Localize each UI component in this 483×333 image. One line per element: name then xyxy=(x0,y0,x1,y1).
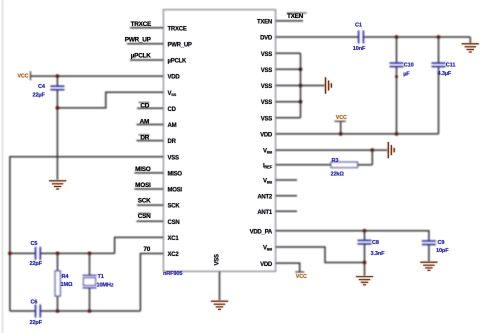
net label TXEN xyxy=(287,12,307,14)
svg-text:C9: C9 xyxy=(438,240,445,246)
svg-text:VDD: VDD xyxy=(260,133,273,139)
svg-text:VCC: VCC xyxy=(336,115,347,121)
capacitor C10 xyxy=(390,63,404,67)
svg-text:4.3µF: 4.3µF xyxy=(438,71,452,77)
svg-text:CD: CD xyxy=(140,102,149,109)
ground top right (DVDD rail) xyxy=(462,44,479,52)
svg-text:TRXCE: TRXCE xyxy=(131,21,152,28)
svg-text:3.3nF: 3.3nF xyxy=(371,251,386,257)
svg-text:VDD_PA: VDD_PA xyxy=(250,229,273,235)
ground below C4 xyxy=(49,181,66,189)
junction at C4 top xyxy=(56,74,60,78)
svg-text:PWR_UP: PWR_UP xyxy=(168,42,192,48)
capacitor C1 xyxy=(359,31,364,44)
ground (rotated) at VBB xyxy=(388,142,394,158)
power port VCC (left) xyxy=(30,71,32,80)
resistor R4 xyxy=(55,271,60,296)
svg-text:VSS: VSS xyxy=(215,254,221,266)
svg-text:70: 70 xyxy=(143,246,150,253)
wire: VSS stubs xyxy=(276,52,301,54)
power port VCC (bottom) xyxy=(295,271,304,273)
svg-text:R3: R3 xyxy=(332,158,339,164)
net label CSN xyxy=(138,212,151,214)
wire: CD pin stub xyxy=(137,107,164,109)
ground below C8 xyxy=(356,277,373,285)
svg-text:SCK: SCK xyxy=(168,204,181,210)
svg-text:DR: DR xyxy=(168,139,177,145)
junction C11 top xyxy=(437,35,441,39)
svg-text:C11: C11 xyxy=(446,62,456,68)
ground top right stub xyxy=(469,37,471,44)
ground (rotated) at VSS bus xyxy=(326,77,332,93)
wire: R3 branch vertical xyxy=(371,150,373,165)
ground below C9 xyxy=(420,262,437,270)
wire: VBB stub xyxy=(276,179,298,181)
svg-text:22µF: 22µF xyxy=(33,93,46,99)
svg-text:CSN: CSN xyxy=(138,213,151,220)
wire: ANT2 stub xyxy=(276,195,298,197)
capacitor C9 lead xyxy=(428,245,430,262)
capacitor C4 leads xyxy=(56,76,58,86)
wire: MOSI pin stub xyxy=(135,188,164,190)
junction R3 branch xyxy=(370,148,374,152)
svg-text:R4: R4 xyxy=(62,274,70,280)
wire: TXEN pin stub xyxy=(276,20,304,22)
wire: VSS bus xyxy=(300,53,302,118)
svg-text:C1: C1 xyxy=(355,22,362,28)
svg-text:TXEN: TXEN xyxy=(257,20,272,26)
wire: DVD rail with C1 xyxy=(276,36,359,38)
svg-text:SCK: SCK xyxy=(138,197,151,204)
svg-text:µF: µF xyxy=(403,72,410,78)
wire: SCK pin stub xyxy=(137,204,164,206)
svg-text:µPCLK: µPCLK xyxy=(168,59,187,65)
svg-text:VSS: VSS xyxy=(168,91,177,97)
IC U1 nRF905 body xyxy=(164,10,276,272)
net label DR xyxy=(139,134,150,136)
junction T1 bottom xyxy=(88,309,92,313)
svg-text:ANT1: ANT1 xyxy=(257,210,273,216)
wire: AM pin stub xyxy=(137,124,164,126)
svg-text:C6: C6 xyxy=(31,300,38,306)
capacitor C10 leads xyxy=(396,37,398,63)
wire: VBB return to C8 bottom xyxy=(276,247,365,263)
capacitor C8 leads xyxy=(364,231,366,241)
wire: DR pin stub xyxy=(137,140,164,142)
capacitor C6 xyxy=(36,305,41,318)
wire: VDD_PA rail xyxy=(276,231,429,241)
ground below chip VSS pin xyxy=(211,301,228,309)
power port VCC (middle) xyxy=(340,121,342,134)
svg-text:CSN: CSN xyxy=(168,220,180,226)
wire: MISO pin stub xyxy=(135,172,164,174)
capacitor C11 leads xyxy=(438,37,440,63)
svg-text:VSS: VSS xyxy=(261,68,273,74)
svg-text:VBB: VBB xyxy=(263,246,272,252)
resistor R4 leads xyxy=(57,253,59,271)
svg-text:VBB: VBB xyxy=(263,179,272,185)
svg-text:VSS: VSS xyxy=(168,155,180,161)
svg-text:VBB: VBB xyxy=(263,149,272,155)
junction C8 bottom xyxy=(363,261,367,265)
svg-text:1MΩ: 1MΩ xyxy=(61,282,73,288)
svg-text:CD: CD xyxy=(168,107,177,113)
svg-text:AM: AM xyxy=(140,118,149,125)
svg-text:VDD: VDD xyxy=(260,262,273,268)
junction T1 top xyxy=(88,252,92,256)
svg-text:22pF: 22pF xyxy=(30,320,43,326)
svg-text:XC1: XC1 xyxy=(168,236,180,242)
wire: VDD rail under C10/C11 xyxy=(276,133,439,135)
svg-text:VDD: VDD xyxy=(168,75,181,81)
svg-text:ANT2: ANT2 xyxy=(257,194,273,200)
svg-text:22pF: 22pF xyxy=(30,261,43,267)
junction C10 bottom xyxy=(395,132,399,136)
svg-text:DR: DR xyxy=(140,135,149,142)
capacitor C8 xyxy=(358,240,372,244)
svg-text:DVD: DVD xyxy=(260,36,273,42)
svg-text:10nF: 10nF xyxy=(353,46,366,52)
svg-text:C8: C8 xyxy=(372,240,379,246)
wire: XC1 pin to crystal top rail xyxy=(115,237,164,253)
sheet border line xyxy=(2,0,4,333)
capacitor C4 xyxy=(50,86,64,90)
svg-text:MOSI: MOSI xyxy=(168,188,183,194)
wire: bottom rail xyxy=(10,310,36,312)
wire: TRX_CE pin stub xyxy=(130,27,164,29)
svg-text:VCC: VCC xyxy=(296,274,307,280)
svg-text:TXEN: TXEN xyxy=(287,13,304,20)
svg-text:VSS: VSS xyxy=(261,100,273,106)
svg-text:C5: C5 xyxy=(31,241,38,247)
svg-text:IREF: IREF xyxy=(263,163,273,169)
svg-text:22kΩ: 22kΩ xyxy=(331,171,345,177)
resistor R3 xyxy=(331,162,358,167)
svg-text:VSS: VSS xyxy=(261,116,273,122)
junction at C4 bottom xyxy=(56,106,60,110)
wire: Vss pin bend to C4 branch xyxy=(57,92,163,108)
wire: R3 to VBB branch xyxy=(358,164,373,166)
svg-text:MISO: MISO xyxy=(168,172,183,178)
capacitor C5 xyxy=(36,247,41,260)
svg-text:nRF905: nRF905 xyxy=(163,271,182,277)
svg-text:TRXCE: TRXCE xyxy=(168,26,187,32)
capacitor C11 xyxy=(432,63,446,67)
wire: bottom VSS pin stub xyxy=(219,271,221,300)
wire: PWR_UP pin stub xyxy=(127,43,164,45)
junction R4 bottom xyxy=(56,309,60,313)
svg-text:C4: C4 xyxy=(38,84,46,90)
wire: ANT1 stub xyxy=(276,210,298,212)
wire: crystal top rail xyxy=(10,252,36,254)
wire: XC2 pin to bottom rail xyxy=(140,254,163,312)
svg-text:10MHz: 10MHz xyxy=(97,283,114,289)
junction VCC stub xyxy=(339,132,343,136)
wire: VSS pin to left rail and down xyxy=(10,157,164,311)
wire: VSS bus to ground xyxy=(301,85,325,87)
wire: uPCLK pin stub xyxy=(130,59,164,61)
junction rail/top xyxy=(8,252,12,256)
wire: CSN pin stub xyxy=(137,220,164,222)
capacitor C9 xyxy=(422,241,436,245)
svg-text:MOSI: MOSI xyxy=(135,182,151,189)
wire: VBB to ground xyxy=(276,149,388,151)
wire: IREF to R3 xyxy=(276,164,332,166)
svg-text:AM: AM xyxy=(168,123,177,129)
junction VSS bus xyxy=(299,67,303,71)
crystal T1 leads xyxy=(89,253,91,275)
svg-text:C10: C10 xyxy=(404,62,414,68)
svg-text:µPCLK: µPCLK xyxy=(131,53,151,60)
net label CD xyxy=(139,102,150,104)
junction below C10 xyxy=(395,75,398,78)
crystal T1 xyxy=(83,275,97,288)
svg-text:VSS: VSS xyxy=(261,84,273,90)
junction R4 top xyxy=(56,252,60,256)
svg-text:PWR_UP: PWR_UP xyxy=(125,37,152,44)
svg-text:XC2: XC2 xyxy=(168,252,180,258)
svg-text:10pF: 10pF xyxy=(436,248,449,254)
wire: VCC to VDD pin xyxy=(31,75,164,77)
svg-text:MISO: MISO xyxy=(135,166,151,173)
junction C10 top xyxy=(395,35,399,39)
svg-text:T1: T1 xyxy=(98,274,104,280)
wire: VDD to VCC (bottom) xyxy=(276,263,300,272)
svg-text:VCC: VCC xyxy=(18,74,29,80)
junction C8 top xyxy=(363,229,367,233)
svg-text:VSS: VSS xyxy=(261,52,273,58)
